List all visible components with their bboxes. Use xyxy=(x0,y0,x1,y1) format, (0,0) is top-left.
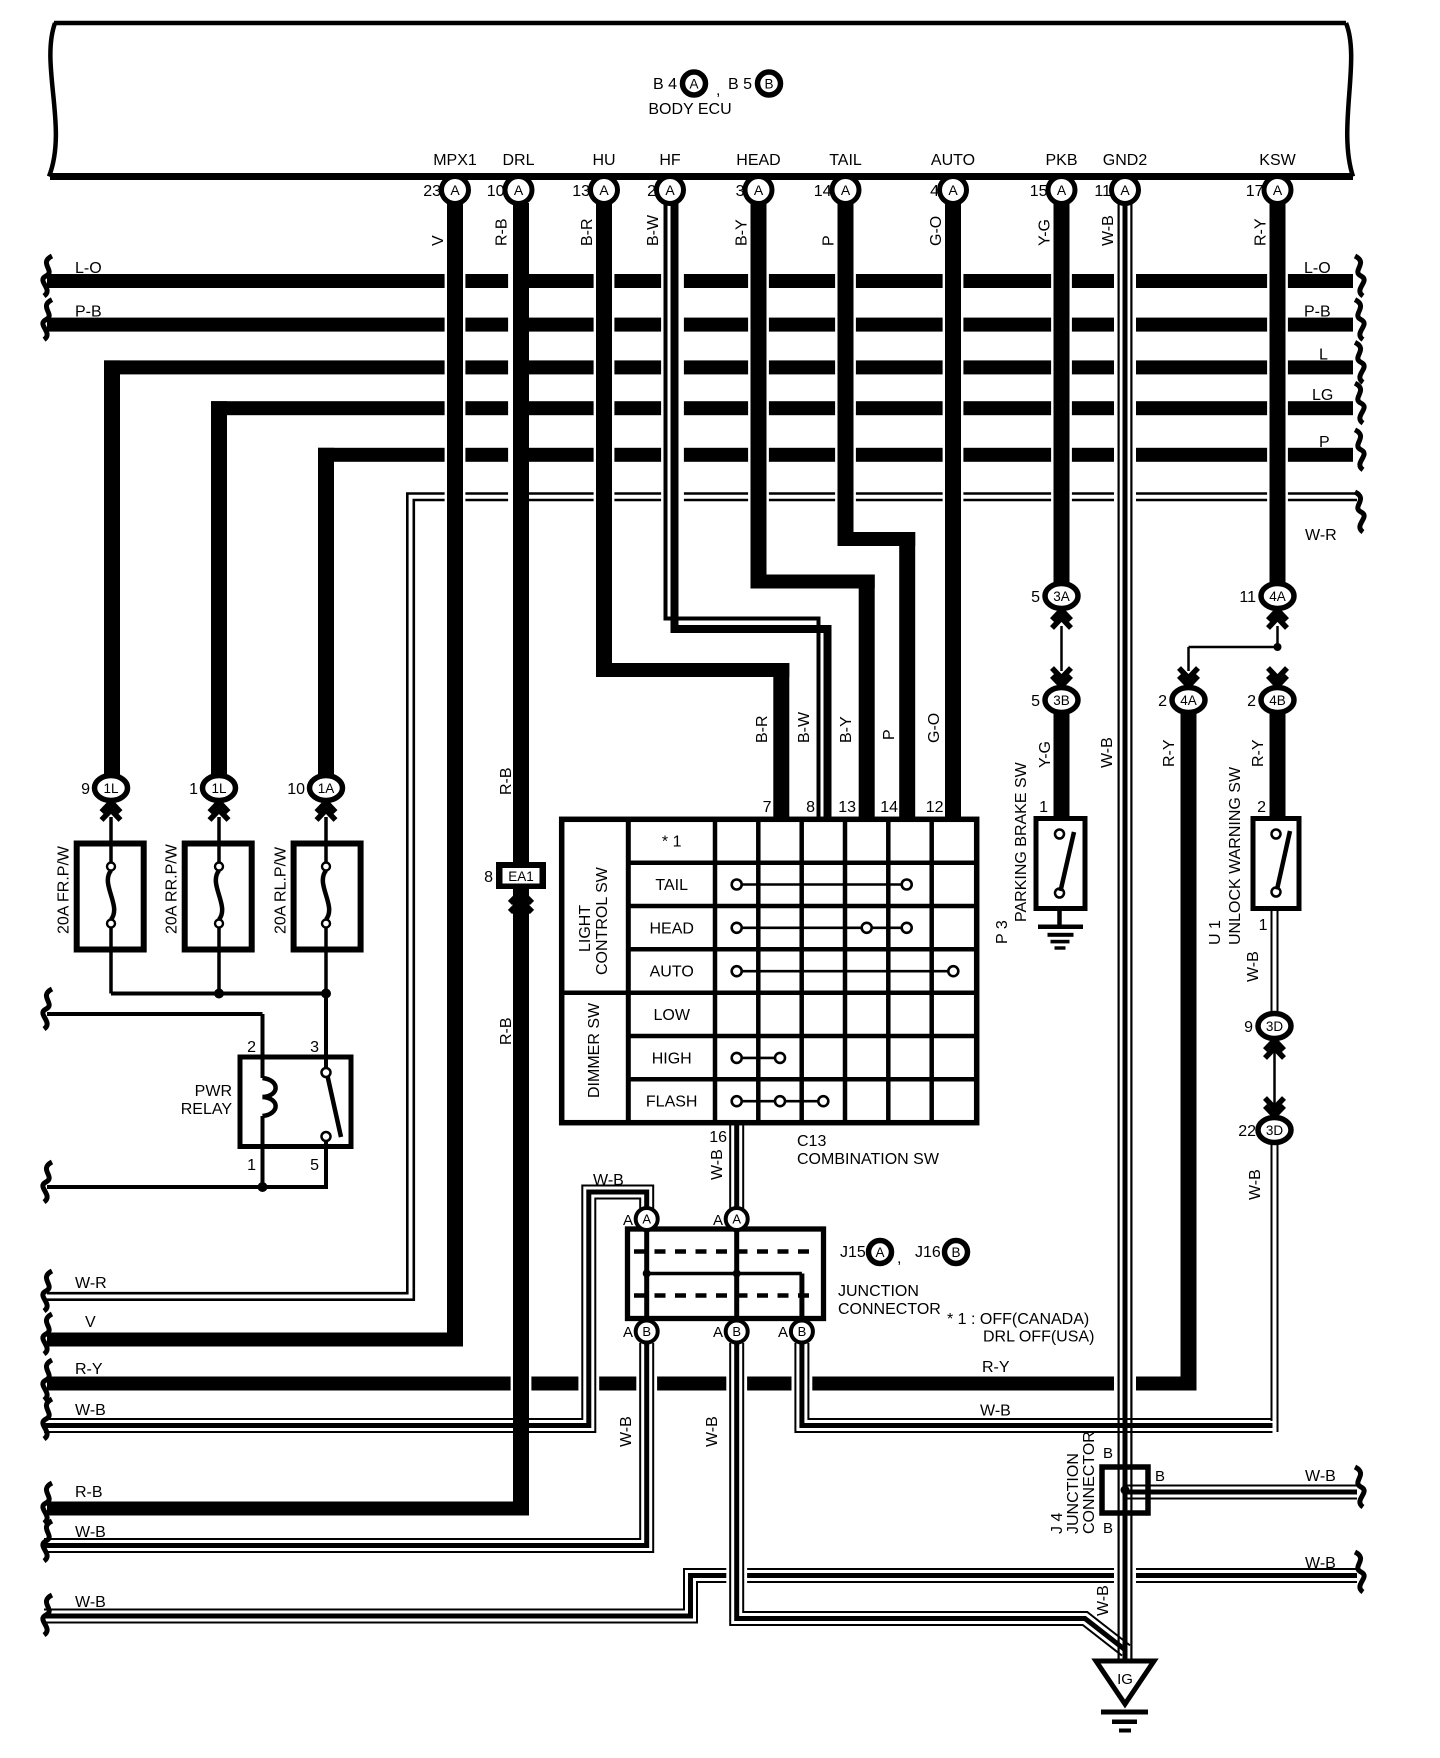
wire bus R-Y xyxy=(47,1377,1197,1391)
svg-text:R-B: R-B xyxy=(498,767,515,795)
svg-text:J 4: J 4 xyxy=(1049,1513,1066,1534)
svg-text:* 1 : OFF(CANADA): * 1 : OFF(CANADA) xyxy=(947,1311,1089,1328)
svg-text:RELAY: RELAY xyxy=(181,1101,233,1118)
body ECU band right torn edge xyxy=(1346,23,1353,177)
contacts HIGH row xyxy=(737,1057,780,1060)
break P-B left xyxy=(43,300,52,340)
svg-text:R-B: R-B xyxy=(498,1017,515,1045)
svg-text:DIMMER SW: DIMMER SW xyxy=(586,1002,603,1098)
node fuse3 junction xyxy=(321,989,331,999)
svg-text:B-Y: B-Y xyxy=(838,716,855,743)
svg-text:P: P xyxy=(821,235,838,246)
svg-text:AUTO: AUTO xyxy=(650,964,694,981)
svg-text:JUNCTION: JUNCTION xyxy=(1065,1453,1082,1534)
break P right xyxy=(1355,430,1364,470)
svg-text:1L: 1L xyxy=(211,781,227,796)
svg-text:7: 7 xyxy=(763,799,772,816)
svg-text:A: A xyxy=(514,182,524,198)
wire bus LO xyxy=(47,274,1353,288)
svg-text:GND2: GND2 xyxy=(1103,152,1148,169)
wire B-R from HU to combination sw pin 7 xyxy=(596,203,612,677)
wire W-B unlock warning sw to 3D (double thin) xyxy=(1271,909,1273,1014)
svg-text:* 1: * 1 xyxy=(662,834,682,851)
svg-text:W-R: W-R xyxy=(1305,527,1337,544)
svg-text:CONNECTOR: CONNECTOR xyxy=(1081,1431,1098,1534)
break W-B mid left xyxy=(43,1521,52,1561)
svg-text:P: P xyxy=(1319,434,1330,451)
wire fuse bottoms interconnect xyxy=(111,992,326,996)
wire R-B from DRL to EA1 xyxy=(513,203,529,862)
svg-text:,: , xyxy=(716,82,720,99)
wire bus V xyxy=(47,1333,463,1347)
svg-text:W-B: W-B xyxy=(1247,1169,1264,1200)
svg-text:CONNECTOR: CONNECTOR xyxy=(838,1301,941,1318)
svg-text:W-R: W-R xyxy=(75,1275,107,1292)
junction internal wire A-B mid xyxy=(734,1229,739,1319)
wire P from TAIL to combination sw pin 14 xyxy=(838,203,854,546)
svg-text:1: 1 xyxy=(1039,799,1048,816)
svg-text:P-B: P-B xyxy=(1304,304,1331,321)
svg-text:B: B xyxy=(798,1324,807,1339)
svg-text:14: 14 xyxy=(880,799,898,816)
svg-text:BODY ECU: BODY ECU xyxy=(648,101,731,118)
body ECU band left torn edge xyxy=(49,23,56,177)
wire bus LG xyxy=(211,401,1353,415)
svg-text:FLASH: FLASH xyxy=(646,1094,698,1111)
svg-text:B 5: B 5 xyxy=(728,76,752,93)
break P-B right xyxy=(1355,300,1364,340)
svg-text:EA1: EA1 xyxy=(508,869,534,884)
svg-text:20A RL.P/W: 20A RL.P/W xyxy=(273,846,290,934)
wire P to fuse connector 1A xyxy=(318,448,334,777)
svg-text:W-B: W-B xyxy=(709,1149,726,1180)
relay switch xyxy=(322,1068,331,1077)
svg-text:HEAD: HEAD xyxy=(649,920,693,937)
svg-text:2: 2 xyxy=(247,1039,256,1056)
contacts AUTO row xyxy=(737,970,954,973)
connector EA1 xyxy=(496,862,546,889)
svg-text:G-O: G-O xyxy=(926,713,943,743)
wire W-B combination sw pin 16 to junction connector xyxy=(734,1123,739,1209)
svg-text:Y-G: Y-G xyxy=(1037,219,1054,246)
svg-text:B: B xyxy=(732,1324,741,1339)
node J4 xyxy=(1121,1486,1130,1495)
junction connector J4 xyxy=(1102,1467,1148,1513)
contacts TAIL row xyxy=(737,883,907,886)
svg-text:B-W: B-W xyxy=(645,214,662,246)
svg-text:DRL: DRL xyxy=(502,152,534,169)
svg-text:22: 22 xyxy=(1238,1123,1256,1140)
svg-text:3D: 3D xyxy=(1266,1019,1284,1034)
svg-text:L-O: L-O xyxy=(1304,260,1331,277)
svg-text:B-Y: B-Y xyxy=(734,219,751,246)
svg-text:HIGH: HIGH xyxy=(652,1050,692,1067)
wire R-Y from KSW to connector 4A xyxy=(1270,203,1286,584)
svg-text:LG: LG xyxy=(1312,387,1333,404)
svg-text:MPX1: MPX1 xyxy=(433,152,477,169)
svg-text:11: 11 xyxy=(1239,589,1256,606)
svg-text:5: 5 xyxy=(1031,693,1040,710)
svg-text:P 3: P 3 xyxy=(994,920,1011,944)
svg-text:KSW: KSW xyxy=(1259,152,1296,169)
ground IG xyxy=(1096,1661,1154,1704)
wire fuse bottom stub xyxy=(324,925,328,994)
wire V from MPX1 to V bus xyxy=(447,203,463,1347)
svg-text:1: 1 xyxy=(1259,917,1268,934)
svg-text:B: B xyxy=(951,1245,960,1260)
wire relay pin 3 xyxy=(324,994,328,1071)
svg-text:B-R: B-R xyxy=(579,218,596,246)
svg-text:3A: 3A xyxy=(1053,589,1070,604)
svg-text:U 1: U 1 xyxy=(1207,920,1224,945)
svg-text:1L: 1L xyxy=(103,781,119,796)
wire W-B junction B left pin to mid bus xyxy=(44,1343,647,1546)
svg-text:W-B: W-B xyxy=(618,1416,635,1447)
svg-text:HF: HF xyxy=(659,152,681,169)
svg-text:R-Y: R-Y xyxy=(1253,218,1270,246)
svg-text:P-B: P-B xyxy=(75,304,102,321)
svg-text:13: 13 xyxy=(572,183,590,200)
svg-text:10: 10 xyxy=(487,183,505,200)
wire bus W-B bottom left + jog xyxy=(44,1576,1357,1617)
svg-text:3D: 3D xyxy=(1266,1123,1284,1138)
wire W-B below 3D down to right W-B bus (double thin) xyxy=(1271,1143,1273,1421)
svg-text:V: V xyxy=(85,1314,96,1331)
svg-text:W-B: W-B xyxy=(75,1402,106,1419)
svg-text:A: A xyxy=(1120,182,1130,198)
svg-text:J16: J16 xyxy=(915,1244,941,1261)
svg-text:A: A xyxy=(841,182,851,198)
contacts FLASH row xyxy=(737,1100,824,1103)
break L right xyxy=(1355,342,1364,382)
wire L to fuse connector 1L xyxy=(104,360,120,777)
node fuse2 junction xyxy=(214,989,224,999)
break R-Y left xyxy=(43,1360,52,1400)
svg-text:23: 23 xyxy=(423,183,441,200)
svg-text:G-O: G-O xyxy=(928,216,945,246)
svg-text:PWR: PWR xyxy=(195,1083,232,1100)
svg-text:HU: HU xyxy=(592,152,615,169)
relay coil xyxy=(263,1078,276,1116)
svg-text:B 4: B 4 xyxy=(653,76,677,93)
body ECU band top edge xyxy=(54,21,1346,26)
break relay coil wire left xyxy=(43,989,52,1029)
svg-text:5: 5 xyxy=(310,1157,319,1174)
svg-text:W-B: W-B xyxy=(1245,951,1262,982)
svg-text:COMBINATION SW: COMBINATION SW xyxy=(797,1151,940,1168)
break W-B bottom left xyxy=(43,1595,52,1635)
wire W-R inner line xyxy=(47,500,1357,1300)
svg-text:8: 8 xyxy=(806,799,815,816)
break R-B left xyxy=(43,1483,52,1523)
svg-text:HEAD: HEAD xyxy=(736,152,780,169)
wire W-B junction pin A to left bus (triple) xyxy=(44,1192,647,1426)
svg-text:15: 15 xyxy=(1030,183,1048,200)
break relay contact wire left xyxy=(43,1162,52,1202)
wire fuse top stub xyxy=(217,817,221,862)
svg-text:1: 1 xyxy=(247,1157,256,1174)
svg-text:20A FR.P/W: 20A FR.P/W xyxy=(56,845,73,934)
svg-text:3B: 3B xyxy=(1053,693,1070,708)
svg-text:8: 8 xyxy=(484,869,493,886)
svg-text:R-Y: R-Y xyxy=(1250,739,1267,767)
svg-text:10: 10 xyxy=(287,781,305,798)
svg-text:B: B xyxy=(642,1324,651,1339)
wire relay pin 1 xyxy=(261,1116,265,1187)
svg-text:CONTROL SW: CONTROL SW xyxy=(594,866,611,975)
svg-text:A: A xyxy=(450,182,460,198)
svg-text:B: B xyxy=(1155,1468,1165,1485)
wire bus R-B xyxy=(47,1502,529,1516)
svg-text:A: A xyxy=(623,1324,633,1341)
svg-text:W-B: W-B xyxy=(1095,1585,1112,1616)
wire W-R outer line xyxy=(47,494,1357,1294)
wire bus L xyxy=(104,360,1353,374)
junction connector bus (dashed) xyxy=(634,1249,817,1254)
wire PWR relay pin1/pin5 xyxy=(47,1185,328,1189)
svg-text:A: A xyxy=(875,1245,884,1260)
svg-text:17: 17 xyxy=(1246,183,1264,200)
svg-text:LOW: LOW xyxy=(653,1007,690,1024)
contacts HEAD row xyxy=(737,926,907,929)
svg-text:L-O: L-O xyxy=(75,260,102,277)
wire fuse top stub xyxy=(109,817,113,862)
fuse 20A RR.P/W xyxy=(185,844,252,950)
wire relay pin 5 xyxy=(324,1141,328,1187)
svg-text:A: A xyxy=(778,1324,788,1341)
svg-text:9: 9 xyxy=(81,781,90,798)
svg-text:V: V xyxy=(430,235,447,246)
svg-text:R-Y: R-Y xyxy=(1161,739,1178,767)
svg-text:R-B: R-B xyxy=(494,218,511,246)
svg-text:A: A xyxy=(713,1212,723,1229)
wire Y-G from 3B to parking brake sw xyxy=(1054,712,1070,819)
svg-text:13: 13 xyxy=(838,799,856,816)
junction internal branch xyxy=(647,1272,802,1276)
svg-text:L: L xyxy=(1319,346,1328,363)
svg-text:A: A xyxy=(642,1212,651,1227)
svg-text:A: A xyxy=(754,182,764,198)
wire bus P xyxy=(318,448,1353,462)
svg-text:2: 2 xyxy=(1257,799,1266,816)
svg-text:W-B: W-B xyxy=(75,1594,106,1611)
svg-text:Y-G: Y-G xyxy=(1037,741,1054,768)
svg-text:PKB: PKB xyxy=(1045,152,1077,169)
svg-text:W-B: W-B xyxy=(75,1524,106,1541)
svg-text:4B: 4B xyxy=(1269,693,1286,708)
svg-text:R-Y: R-Y xyxy=(75,1361,103,1378)
break W-R left xyxy=(43,1271,52,1311)
break W-R right xyxy=(1355,492,1364,532)
svg-text:1A: 1A xyxy=(318,781,335,796)
wire bus W-B from J4 xyxy=(1125,1490,1357,1495)
break L-O right xyxy=(1355,256,1364,296)
svg-text:B: B xyxy=(1103,1445,1113,1462)
svg-text:20A RR.P/W: 20A RR.P/W xyxy=(164,843,181,934)
svg-text:9: 9 xyxy=(1244,1019,1253,1036)
svg-text:AUTO: AUTO xyxy=(931,152,975,169)
svg-text:JUNCTION: JUNCTION xyxy=(838,1283,919,1300)
break W-B bottom right xyxy=(1355,1552,1364,1592)
svg-text:DRL OFF(USA): DRL OFF(USA) xyxy=(983,1329,1094,1346)
svg-text:W-B: W-B xyxy=(980,1403,1011,1420)
svg-text:W-B: W-B xyxy=(1305,1468,1336,1485)
svg-text:A: A xyxy=(1273,182,1283,198)
svg-text:B: B xyxy=(764,77,773,92)
svg-text:W-B: W-B xyxy=(593,1172,624,1189)
wire between 3D connectors xyxy=(1273,1040,1276,1117)
svg-text:12: 12 xyxy=(926,799,944,816)
wire to PWR relay coil (pin2) xyxy=(47,1012,263,1016)
svg-text:W-B: W-B xyxy=(1099,737,1116,768)
break L-O left xyxy=(43,256,52,296)
body ECU band bottom edge xyxy=(50,173,1353,180)
wire B-W from HF to combination sw pin 8 (double) xyxy=(666,203,819,820)
wire W-B from GND2 to IG ground (triple line) xyxy=(1117,203,1119,1661)
svg-text:B-R: B-R xyxy=(754,715,771,743)
svg-text:3: 3 xyxy=(310,1039,319,1056)
svg-text:16: 16 xyxy=(709,1129,727,1146)
wire G-O from AUTO to combination sw pin 12 xyxy=(945,203,961,820)
svg-text:UNLOCK WARNING SW: UNLOCK WARNING SW xyxy=(1227,766,1244,945)
svg-text:4A: 4A xyxy=(1269,589,1286,604)
wire fuse bottom stub xyxy=(217,925,221,994)
wire W-B junction B right pin to unlock riser xyxy=(802,1343,1273,1426)
svg-text:A: A xyxy=(1057,182,1067,198)
switch U1 unlock warning sw xyxy=(1253,819,1299,909)
fuse 20A RL.P/W xyxy=(294,844,361,950)
svg-text:J15: J15 xyxy=(840,1244,866,1261)
break W-B J4 right xyxy=(1355,1467,1364,1507)
svg-text:,: , xyxy=(897,1250,901,1267)
svg-text:LIGHT: LIGHT xyxy=(577,905,594,952)
svg-text:W-B: W-B xyxy=(1305,1555,1336,1572)
wire LG to fuse connector 1L xyxy=(211,401,227,777)
svg-text:A: A xyxy=(599,182,609,198)
svg-text:A: A xyxy=(689,77,698,92)
switch P3 parking brake sw xyxy=(1036,819,1085,909)
wire 4A branch node xyxy=(1276,626,1279,647)
wire B-Y from HEAD to combination sw pin 13 xyxy=(751,203,767,589)
svg-text:14: 14 xyxy=(814,183,832,200)
junction connector box xyxy=(628,1229,824,1319)
svg-text:A: A xyxy=(665,182,675,198)
svg-text:2: 2 xyxy=(1247,693,1256,710)
svg-text:A: A xyxy=(732,1212,741,1227)
svg-text:IG: IG xyxy=(1117,1671,1133,1688)
svg-text:PARKING BRAKE SW: PARKING BRAKE SW xyxy=(1013,761,1030,922)
svg-text:11: 11 xyxy=(1094,183,1111,200)
fuse 20A FR.P/W xyxy=(77,844,144,950)
svg-text:B-W: B-W xyxy=(796,711,813,743)
svg-text:W-B: W-B xyxy=(1100,215,1117,246)
break V left xyxy=(43,1314,52,1354)
wire R-B from EA1 to R-B bus xyxy=(513,889,529,1516)
svg-text:A: A xyxy=(713,1324,723,1341)
wire between 3A and 3B xyxy=(1060,626,1063,671)
svg-text:TAIL: TAIL xyxy=(655,877,688,894)
node relay pin1 junction xyxy=(258,1182,268,1192)
svg-text:2: 2 xyxy=(1158,693,1167,710)
svg-text:5: 5 xyxy=(1031,589,1040,606)
svg-text:B: B xyxy=(1103,1520,1113,1537)
wire relay pin 2 xyxy=(261,1014,265,1078)
svg-text:W-B: W-B xyxy=(704,1416,721,1447)
svg-text:P: P xyxy=(881,729,898,740)
wire R-Y from 4A to R-Y bus xyxy=(1181,712,1197,1391)
wire fuse top stub xyxy=(324,817,328,862)
ground (parking brake sw) xyxy=(1057,909,1062,926)
break LG right xyxy=(1355,383,1364,423)
svg-text:4A: 4A xyxy=(1180,693,1197,708)
svg-text:A: A xyxy=(948,182,958,198)
svg-text:1: 1 xyxy=(189,781,198,798)
wire Y-G from PKB to connector 3A xyxy=(1054,203,1070,584)
svg-text:TAIL: TAIL xyxy=(829,152,862,169)
wire W-B junction mid B to IG ground xyxy=(737,1343,1126,1651)
junction internal wire A-B left xyxy=(644,1229,649,1319)
wire R-Y from 4B to unlock warning sw xyxy=(1270,712,1286,819)
svg-text:R-B: R-B xyxy=(75,1484,103,1501)
wire fuse bottom stub xyxy=(109,925,113,994)
svg-text:C13: C13 xyxy=(797,1133,826,1150)
junction connector bus (dashed) xyxy=(634,1293,817,1298)
svg-text:R-Y: R-Y xyxy=(982,1359,1010,1376)
break W-B left xyxy=(43,1399,52,1439)
wire bus PB xyxy=(47,318,1353,332)
svg-text:A: A xyxy=(623,1212,633,1229)
